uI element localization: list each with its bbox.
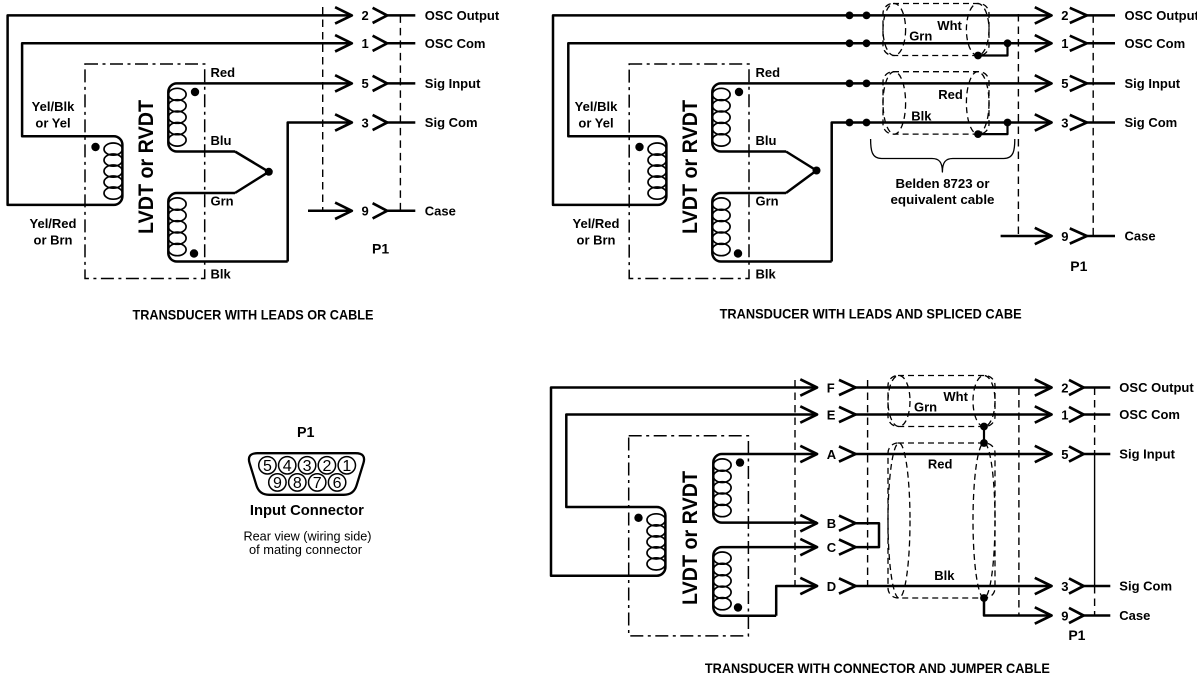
svg-text:6: 6 [333, 475, 342, 492]
svg-text:or Brn: or Brn [34, 233, 73, 248]
svg-text:OSC Output: OSC Output [1119, 380, 1194, 395]
svg-text:Yel/Blk: Yel/Blk [32, 99, 75, 114]
svg-text:9: 9 [273, 475, 282, 492]
svg-text:3: 3 [1061, 579, 1068, 594]
svg-text:Red: Red [211, 65, 236, 80]
svg-text:Red: Red [928, 457, 953, 472]
svg-text:2: 2 [362, 8, 369, 23]
svg-text:1: 1 [342, 458, 351, 475]
svg-text:OSC Output: OSC Output [1125, 8, 1197, 23]
svg-text:of mating connector: of mating connector [249, 542, 363, 557]
svg-text:3: 3 [362, 115, 369, 130]
svg-text:D: D [827, 579, 836, 594]
svg-text:Red: Red [938, 87, 963, 102]
svg-text:Yel/Blk: Yel/Blk [575, 99, 618, 114]
svg-text:Blk: Blk [934, 568, 955, 583]
svg-text:5: 5 [1061, 447, 1068, 462]
svg-text:P1: P1 [372, 241, 389, 257]
svg-text:Case: Case [1125, 229, 1156, 244]
svg-text:P1: P1 [1068, 627, 1085, 643]
svg-text:Case: Case [425, 204, 456, 219]
svg-text:Blk: Blk [756, 267, 777, 282]
svg-text:or Brn: or Brn [577, 233, 616, 248]
svg-text:F: F [827, 380, 835, 395]
svg-text:Yel/Red: Yel/Red [573, 216, 620, 231]
svg-text:or Yel: or Yel [35, 116, 70, 131]
svg-text:Sig Input: Sig Input [1125, 76, 1181, 91]
svg-text:Yel/Red: Yel/Red [30, 216, 77, 231]
svg-text:8: 8 [293, 475, 302, 492]
svg-text:Input Connector: Input Connector [250, 502, 364, 519]
svg-text:TRANSDUCER WITH CONNECTOR AND: TRANSDUCER WITH CONNECTOR AND JUMPER CAB… [705, 661, 1050, 676]
svg-text:A: A [827, 447, 837, 462]
svg-text:LVDT or RVDT: LVDT or RVDT [678, 100, 702, 234]
svg-text:Sig Com: Sig Com [1125, 115, 1178, 130]
svg-text:Blk: Blk [911, 108, 932, 123]
svg-text:Grn: Grn [756, 194, 779, 209]
svg-text:Sig Com: Sig Com [1119, 579, 1172, 594]
svg-text:3: 3 [1061, 115, 1068, 130]
svg-text:5: 5 [362, 76, 369, 91]
svg-text:LVDT or RVDT: LVDT or RVDT [678, 471, 702, 605]
svg-text:Wht: Wht [943, 389, 968, 404]
svg-text:Blu: Blu [756, 133, 777, 148]
svg-text:Grn: Grn [211, 194, 234, 209]
svg-text:TRANSDUCER WITH LEADS OR CABLE: TRANSDUCER WITH LEADS OR CABLE [133, 308, 374, 323]
svg-text:OSC Output: OSC Output [425, 8, 500, 23]
svg-text:OSC Com: OSC Com [1119, 407, 1180, 422]
svg-text:P1: P1 [297, 425, 315, 441]
svg-text:5: 5 [1061, 76, 1068, 91]
svg-text:Belden 8723 or: Belden 8723 or [896, 176, 990, 191]
svg-text:Sig Input: Sig Input [1119, 447, 1175, 462]
svg-text:OSC Com: OSC Com [425, 36, 486, 51]
svg-text:4: 4 [283, 458, 292, 475]
svg-text:Sig Com: Sig Com [425, 115, 478, 130]
svg-text:2: 2 [1061, 8, 1068, 23]
svg-text:1: 1 [1061, 407, 1068, 422]
svg-text:9: 9 [1061, 608, 1068, 623]
svg-text:LVDT or RVDT: LVDT or RVDT [134, 100, 158, 234]
svg-text:Red: Red [756, 65, 781, 80]
svg-text:equivalent cable: equivalent cable [891, 192, 995, 207]
svg-text:TRANSDUCER WITH LEADS AND SPLI: TRANSDUCER WITH LEADS AND SPLICED CABE [720, 306, 1022, 321]
svg-text:Grn: Grn [909, 29, 932, 44]
svg-text:Blu: Blu [211, 133, 232, 148]
svg-text:5: 5 [263, 458, 272, 475]
svg-text:Blk: Blk [211, 267, 232, 282]
svg-text:E: E [827, 407, 836, 422]
svg-text:or Yel: or Yel [578, 116, 613, 131]
svg-text:3: 3 [303, 458, 312, 475]
svg-text:2: 2 [322, 458, 331, 475]
svg-text:C: C [827, 540, 837, 555]
svg-text:Sig Input: Sig Input [425, 76, 481, 91]
svg-text:Wht: Wht [937, 18, 962, 33]
svg-text:2: 2 [1061, 380, 1068, 395]
svg-text:1: 1 [1061, 36, 1068, 51]
svg-text:7: 7 [313, 475, 322, 492]
svg-text:P1: P1 [1070, 258, 1087, 274]
svg-text:B: B [827, 516, 836, 531]
svg-text:OSC Com: OSC Com [1125, 36, 1186, 51]
svg-text:9: 9 [1061, 229, 1068, 244]
svg-text:1: 1 [362, 36, 369, 51]
svg-text:Grn: Grn [914, 400, 937, 415]
svg-text:Case: Case [1119, 608, 1150, 623]
svg-text:9: 9 [362, 204, 369, 219]
